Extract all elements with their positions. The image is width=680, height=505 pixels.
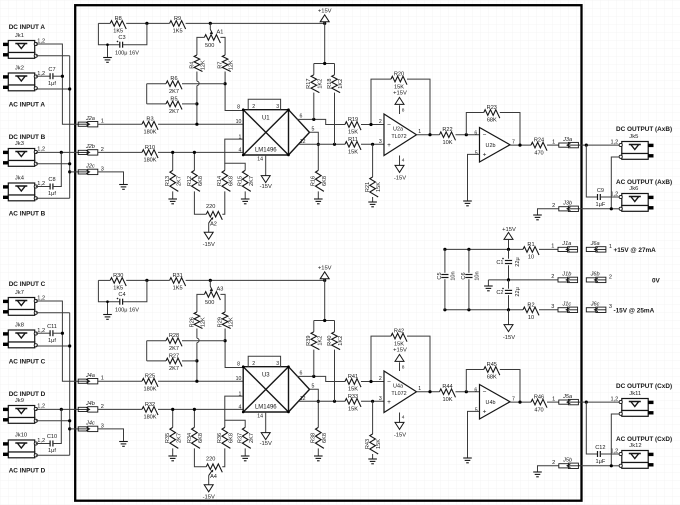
- svg-text:R19: R19: [348, 117, 358, 123]
- svg-text:1: 1: [418, 386, 421, 392]
- svg-text:15K: 15K: [394, 84, 404, 90]
- svg-text:C12: C12: [595, 445, 605, 451]
- svg-text:15K: 15K: [394, 341, 404, 347]
- svg-text:6K8: 6K8: [322, 433, 328, 443]
- svg-text:Jk10: Jk10: [15, 432, 27, 438]
- svg-text:-15V: -15V: [203, 242, 215, 248]
- svg-text:R2: R2: [527, 302, 534, 308]
- svg-text:DC INPUT B: DC INPUT B: [9, 134, 46, 141]
- svg-text:+: +: [483, 151, 487, 158]
- svg-text:R8: R8: [115, 16, 122, 22]
- svg-text:12: 12: [300, 139, 306, 145]
- svg-text:DC INPUT C: DC INPUT C: [9, 281, 46, 288]
- svg-text:10n: 10n: [450, 271, 456, 280]
- svg-text:8: 8: [402, 364, 405, 370]
- svg-text:12K: 12K: [229, 317, 235, 327]
- svg-text:LM1496: LM1496: [255, 405, 277, 411]
- svg-text:2: 2: [379, 119, 382, 125]
- svg-text:J4a: J4a: [85, 373, 95, 379]
- svg-text:R24: R24: [534, 138, 544, 144]
- svg-text:C2: C2: [496, 290, 503, 296]
- svg-text:J5a: J5a: [562, 394, 572, 400]
- svg-text:15K: 15K: [376, 439, 382, 449]
- svg-text:6K8: 6K8: [198, 176, 204, 186]
- svg-text:C11: C11: [47, 324, 57, 330]
- svg-text:1K5: 1K5: [173, 286, 183, 292]
- svg-text:R33: R33: [348, 394, 358, 400]
- svg-text:-15V: -15V: [260, 184, 272, 190]
- svg-text:Jk4: Jk4: [15, 175, 25, 181]
- svg-text:15K: 15K: [376, 182, 382, 192]
- svg-text:AC OUTPUT (CxD): AC OUTPUT (CxD): [616, 436, 672, 443]
- svg-text:U1: U1: [262, 116, 270, 122]
- svg-text:+15V: +15V: [393, 347, 407, 353]
- svg-text:Jk7: Jk7: [15, 290, 24, 296]
- svg-text:A1: A1: [217, 30, 224, 36]
- svg-text:R35: R35: [165, 433, 171, 443]
- svg-text:2: 2: [379, 376, 382, 382]
- svg-text:1: 1: [552, 396, 555, 402]
- svg-text:J2c: J2c: [85, 164, 95, 170]
- svg-text:220: 220: [206, 456, 215, 462]
- svg-text:-15V: -15V: [394, 176, 406, 182]
- svg-text:2K7: 2K7: [176, 176, 182, 186]
- svg-text:R11: R11: [348, 137, 358, 143]
- svg-text:C3: C3: [118, 35, 125, 41]
- svg-text:100μ 16V: 100μ 16V: [115, 50, 139, 56]
- svg-text:R34: R34: [187, 433, 193, 443]
- svg-text:C9: C9: [597, 188, 604, 194]
- svg-text:1: 1: [609, 244, 612, 250]
- svg-text:−: −: [483, 389, 487, 396]
- svg-text:J6c: J6c: [590, 302, 600, 308]
- svg-text:R36: R36: [217, 433, 223, 443]
- svg-text:1μf: 1μf: [48, 338, 56, 344]
- svg-text:3: 3: [276, 361, 279, 367]
- svg-text:14: 14: [257, 413, 263, 419]
- svg-text:10K: 10K: [443, 140, 453, 146]
- svg-text:1,2: 1,2: [611, 140, 619, 146]
- svg-text:R41: R41: [348, 374, 358, 380]
- svg-text:2: 2: [552, 460, 555, 466]
- svg-text:15K: 15K: [348, 130, 358, 136]
- svg-text:1K2: 1K2: [317, 79, 323, 89]
- svg-text:R23: R23: [487, 105, 497, 111]
- svg-text:+15V: +15V: [502, 227, 516, 233]
- svg-text:C7: C7: [48, 67, 55, 73]
- svg-text:1K5: 1K5: [113, 29, 123, 35]
- svg-text:10K: 10K: [443, 397, 453, 403]
- svg-text:R43: R43: [365, 439, 371, 449]
- svg-text:R26: R26: [189, 317, 195, 327]
- svg-text:R39: R39: [306, 336, 312, 346]
- svg-text:J3b: J3b: [562, 201, 572, 207]
- svg-text:J6a: J6a: [590, 241, 600, 247]
- svg-text:6K8: 6K8: [198, 433, 204, 443]
- svg-text:3: 3: [379, 396, 382, 402]
- svg-text:R25: R25: [145, 374, 155, 380]
- svg-text:12K: 12K: [201, 60, 207, 70]
- svg-text:2: 2: [551, 274, 554, 280]
- svg-text:6K8: 6K8: [228, 176, 234, 186]
- svg-text:1K2: 1K2: [338, 79, 344, 89]
- svg-text:6K8: 6K8: [228, 433, 234, 443]
- svg-text:10: 10: [236, 119, 242, 125]
- svg-text:R3: R3: [146, 117, 153, 123]
- svg-text:R44: R44: [442, 384, 452, 390]
- svg-text:Jk8: Jk8: [15, 322, 24, 328]
- svg-text:2K7: 2K7: [169, 346, 179, 352]
- svg-text:DC INPUT A: DC INPUT A: [9, 24, 46, 31]
- svg-text:1μf: 1μf: [48, 448, 56, 454]
- svg-text:+: +: [387, 142, 391, 149]
- svg-text:1μf: 1μf: [48, 81, 56, 87]
- svg-text:R32: R32: [145, 402, 155, 408]
- svg-text:R5: R5: [170, 96, 177, 102]
- svg-text:C5: C5: [437, 272, 443, 279]
- svg-text:Jk9: Jk9: [15, 398, 24, 404]
- svg-text:+15V: +15V: [318, 265, 332, 271]
- svg-text:1K2: 1K2: [338, 336, 344, 346]
- svg-text:22μ: 22μ: [515, 257, 521, 266]
- svg-text:DC OUTPUT (CxD): DC OUTPUT (CxD): [616, 383, 672, 390]
- svg-text:R38: R38: [311, 433, 317, 443]
- svg-text:6: 6: [474, 130, 477, 136]
- svg-text:1K2: 1K2: [317, 336, 323, 346]
- svg-text:4: 4: [239, 405, 242, 411]
- svg-text:U4a: U4a: [393, 384, 403, 390]
- svg-text:1: 1: [552, 139, 555, 145]
- svg-text:3: 3: [551, 304, 554, 310]
- svg-text:DC OUTPUT (AxB): DC OUTPUT (AxB): [616, 126, 672, 133]
- svg-text:+15V: +15V: [318, 8, 332, 14]
- svg-text:10: 10: [528, 315, 534, 321]
- svg-text:J2a: J2a: [85, 116, 95, 122]
- svg-text:2: 2: [609, 274, 612, 280]
- svg-text:6: 6: [300, 370, 303, 376]
- svg-text:15K: 15K: [348, 150, 358, 156]
- svg-text:R30: R30: [113, 273, 123, 279]
- svg-text:6: 6: [474, 387, 477, 393]
- svg-text:2K7: 2K7: [249, 176, 255, 186]
- svg-text:R1: R1: [527, 242, 534, 248]
- svg-text:-15V: -15V: [503, 335, 515, 341]
- svg-text:68K: 68K: [487, 118, 497, 124]
- svg-text:6K8: 6K8: [322, 176, 328, 186]
- svg-text:2K7: 2K7: [169, 109, 179, 115]
- svg-text:500: 500: [205, 43, 214, 49]
- svg-text:J1a: J1a: [561, 241, 571, 247]
- svg-text:R31: R31: [172, 273, 182, 279]
- svg-text:2K7: 2K7: [169, 89, 179, 95]
- svg-text:−: −: [387, 379, 391, 386]
- svg-text:R12: R12: [187, 176, 193, 186]
- svg-text:+: +: [483, 408, 487, 415]
- svg-text:R16: R16: [311, 176, 317, 186]
- svg-text:R21: R21: [365, 182, 371, 192]
- svg-text:10: 10: [236, 376, 242, 382]
- svg-text:180K: 180K: [143, 415, 156, 421]
- svg-text:R22: R22: [442, 127, 452, 133]
- svg-text:A2: A2: [210, 222, 217, 228]
- svg-text:1μF: 1μF: [596, 459, 606, 465]
- svg-text:J6b: J6b: [590, 272, 600, 278]
- svg-text:68K: 68K: [487, 375, 497, 381]
- svg-text:7: 7: [512, 139, 515, 145]
- svg-text:R42: R42: [394, 329, 404, 335]
- svg-text:AC OUTPUT (AxB): AC OUTPUT (AxB): [616, 179, 672, 186]
- svg-text:3: 3: [379, 139, 382, 145]
- svg-text:7: 7: [512, 396, 515, 402]
- svg-text:-15V: -15V: [203, 494, 215, 500]
- svg-text:5: 5: [312, 127, 315, 133]
- svg-text:J3a: J3a: [562, 137, 572, 143]
- svg-text:−: −: [387, 122, 391, 129]
- svg-text:5: 5: [475, 407, 478, 413]
- svg-text:3: 3: [276, 104, 279, 110]
- svg-text:C10: C10: [47, 434, 57, 440]
- svg-text:15K: 15K: [348, 387, 358, 393]
- svg-text:R13: R13: [165, 176, 171, 186]
- svg-text:TL072: TL072: [391, 391, 406, 397]
- svg-text:1K5: 1K5: [113, 286, 123, 292]
- svg-text:U3: U3: [262, 373, 270, 379]
- svg-text:Jk1: Jk1: [15, 33, 24, 39]
- svg-text:Jk2: Jk2: [15, 65, 24, 71]
- svg-text:R28: R28: [169, 333, 179, 339]
- svg-text:AC INPUT C: AC INPUT C: [9, 358, 46, 365]
- svg-text:U4b: U4b: [486, 400, 496, 406]
- svg-text:TL072: TL072: [391, 134, 406, 140]
- svg-text:C6: C6: [461, 272, 467, 279]
- svg-text:-15V @ 25mA: -15V @ 25mA: [614, 308, 655, 315]
- svg-text:1,2: 1,2: [611, 397, 619, 403]
- svg-text:A4: A4: [210, 474, 217, 480]
- svg-text:-15V: -15V: [260, 441, 272, 447]
- svg-text:12: 12: [300, 396, 306, 402]
- svg-text:J2b: J2b: [85, 144, 95, 150]
- svg-text:2K7: 2K7: [169, 366, 179, 372]
- svg-text:6: 6: [300, 113, 303, 119]
- svg-text:DC INPUT D: DC INPUT D: [9, 391, 46, 398]
- svg-text:AC INPUT D: AC INPUT D: [9, 467, 46, 474]
- svg-text:R46: R46: [534, 395, 544, 401]
- svg-text:R29: R29: [218, 317, 224, 327]
- svg-text:4: 4: [402, 157, 405, 163]
- svg-text:3: 3: [609, 304, 612, 310]
- svg-text:4: 4: [402, 414, 405, 420]
- svg-text:R6: R6: [170, 76, 177, 82]
- svg-text:R15: R15: [238, 176, 244, 186]
- svg-text:12K: 12K: [201, 317, 207, 327]
- svg-text:C1: C1: [496, 260, 503, 266]
- svg-text:+15V @ 27mA: +15V @ 27mA: [614, 247, 657, 254]
- svg-text:180K: 180K: [143, 158, 156, 164]
- svg-text:Jk12: Jk12: [629, 443, 641, 449]
- svg-text:R17: R17: [306, 79, 312, 89]
- svg-text:R45: R45: [487, 362, 497, 368]
- svg-text:8: 8: [402, 107, 405, 113]
- svg-text:AC INPUT B: AC INPUT B: [9, 210, 46, 217]
- svg-text:Jk11: Jk11: [629, 391, 641, 397]
- svg-text:500: 500: [205, 300, 214, 306]
- svg-text:J1b: J1b: [561, 272, 571, 278]
- svg-text:R14: R14: [217, 176, 223, 186]
- svg-text:J4c: J4c: [85, 421, 95, 427]
- svg-text:15K: 15K: [348, 407, 358, 413]
- svg-text:C8: C8: [48, 177, 55, 183]
- svg-text:Jk6: Jk6: [629, 186, 638, 192]
- svg-text:2: 2: [252, 104, 255, 110]
- svg-text:J1c: J1c: [561, 302, 571, 308]
- svg-text:R27: R27: [169, 353, 179, 359]
- svg-text:5: 5: [475, 150, 478, 156]
- svg-text:R37: R37: [238, 433, 244, 443]
- svg-text:2: 2: [552, 203, 555, 209]
- svg-text:180K: 180K: [143, 129, 156, 135]
- svg-text:-15V: -15V: [394, 433, 406, 439]
- svg-text:100μ 16V: 100μ 16V: [115, 307, 139, 313]
- svg-text:R18: R18: [327, 79, 333, 89]
- svg-text:2K7: 2K7: [249, 433, 255, 443]
- svg-text:2: 2: [252, 361, 255, 367]
- svg-text:Jk3: Jk3: [15, 141, 24, 147]
- svg-text:470: 470: [534, 150, 543, 156]
- svg-text:R7: R7: [218, 62, 224, 69]
- svg-text:1: 1: [418, 129, 421, 135]
- svg-text:1μF: 1μF: [596, 202, 606, 208]
- svg-text:J4b: J4b: [85, 401, 95, 407]
- svg-text:1,2: 1,2: [37, 404, 45, 410]
- svg-text:8: 8: [237, 105, 240, 111]
- svg-text:2K7: 2K7: [176, 433, 182, 443]
- svg-text:C4: C4: [118, 292, 125, 298]
- svg-text:LM1496: LM1496: [255, 148, 277, 154]
- svg-text:A3: A3: [217, 287, 224, 293]
- svg-text:R4: R4: [189, 62, 195, 69]
- svg-text:10n: 10n: [474, 271, 480, 280]
- svg-text:R10: R10: [145, 145, 155, 151]
- svg-text:22μ: 22μ: [515, 287, 521, 296]
- svg-text:Jk5: Jk5: [629, 134, 638, 140]
- svg-text:220: 220: [206, 204, 215, 210]
- svg-text:1,2: 1,2: [37, 147, 45, 153]
- svg-text:10: 10: [528, 255, 534, 261]
- svg-text:J5b: J5b: [562, 458, 572, 464]
- svg-text:0V: 0V: [652, 278, 661, 285]
- svg-text:180K: 180K: [143, 386, 156, 392]
- svg-text:470: 470: [534, 407, 543, 413]
- svg-text:−: −: [483, 132, 487, 139]
- svg-text:14: 14: [257, 156, 263, 162]
- svg-text:R9: R9: [174, 16, 181, 22]
- svg-text:R20: R20: [394, 72, 404, 78]
- svg-text:1K5: 1K5: [173, 29, 183, 35]
- svg-text:U2a: U2a: [393, 127, 403, 133]
- svg-text:8: 8: [237, 362, 240, 368]
- svg-text:R40: R40: [327, 336, 333, 346]
- svg-text:12K: 12K: [229, 60, 235, 70]
- svg-text:1: 1: [551, 244, 554, 250]
- svg-text:U2b: U2b: [486, 143, 496, 149]
- svg-text:AC INPUT A: AC INPUT A: [9, 101, 46, 108]
- svg-text:1μf: 1μf: [48, 191, 56, 197]
- svg-text:5: 5: [312, 384, 315, 390]
- svg-text:4: 4: [239, 148, 242, 154]
- svg-text:+: +: [387, 399, 391, 406]
- svg-text:+15V: +15V: [393, 90, 407, 96]
